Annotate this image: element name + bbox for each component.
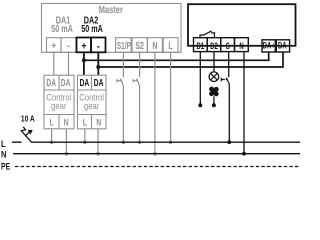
junction S1/P on L line bbox=[122, 140, 126, 144]
terminal S1/P bbox=[116, 38, 132, 53]
junction gear1 L bbox=[50, 140, 54, 144]
wire DA2- down to gear2 (bold) bbox=[97, 52, 99, 75]
svg-text:S: S bbox=[226, 41, 230, 52]
DALI bus DA+ line bbox=[84, 52, 269, 60]
circuit breaker F1 bbox=[21, 127, 32, 143]
svg-text:DA+: DA+ bbox=[263, 40, 276, 51]
terminal D2 bbox=[207, 38, 221, 52]
wire DA1- down to gear1 bbox=[68, 52, 70, 75]
svg-text:+: + bbox=[81, 40, 86, 52]
wire DA2+ down to gear2 (bold) bbox=[83, 52, 85, 75]
push button S2 bbox=[133, 79, 140, 87]
junction S on L line bbox=[227, 140, 231, 144]
terminal DA1 plus bbox=[47, 38, 62, 53]
svg-text:50 mA: 50 mA bbox=[51, 23, 73, 34]
terminal L (master) bbox=[163, 38, 178, 53]
wire fan down bbox=[213, 96, 215, 104]
svg-text:L: L bbox=[50, 116, 54, 127]
wire gear2 L to L line bbox=[84, 129, 86, 142]
wire DA1+ down to gear1 bbox=[53, 52, 55, 75]
terminal DA- bbox=[276, 40, 289, 52]
junction master N on N line bbox=[153, 152, 157, 156]
wire gear2 N to N line bbox=[97, 129, 99, 154]
junction S2 on L line bbox=[138, 140, 142, 144]
svg-text:L: L bbox=[168, 40, 173, 52]
terminal S2 bbox=[132, 38, 147, 53]
svg-text:PE: PE bbox=[1, 162, 11, 172]
wire gear1 L to L line bbox=[51, 129, 53, 142]
svg-text:+: + bbox=[51, 40, 56, 52]
svg-text:N: N bbox=[152, 40, 157, 52]
junction gear2 L bbox=[83, 140, 87, 144]
junction gear2 N bbox=[96, 152, 100, 156]
svg-text:DA-: DA- bbox=[278, 40, 289, 51]
terminal DA1 minus bbox=[61, 38, 76, 53]
N line bbox=[13, 153, 300, 155]
svg-text:Master: Master bbox=[99, 4, 123, 15]
svg-text:-: - bbox=[67, 40, 70, 52]
wire master L down bbox=[170, 52, 172, 142]
wire D1 down bbox=[199, 52, 201, 104]
relay contact K1 bbox=[200, 31, 215, 38]
svg-text:S2: S2 bbox=[135, 40, 144, 52]
L line bbox=[12, 141, 300, 143]
svg-text:D1: D1 bbox=[196, 41, 204, 52]
control gear 1 box bbox=[44, 75, 74, 129]
terminal DA2 minus (bold) bbox=[91, 38, 106, 53]
svg-text:N: N bbox=[64, 116, 69, 127]
svg-text:L: L bbox=[83, 116, 87, 127]
svg-text:L: L bbox=[1, 138, 6, 149]
fan M1 bbox=[209, 87, 219, 97]
wire gear1 N to N line bbox=[65, 129, 67, 154]
svg-text:DA: DA bbox=[46, 77, 56, 89]
master device box U1 bbox=[42, 4, 182, 53]
svg-text:D2: D2 bbox=[210, 41, 218, 52]
wire N (actuator) down bbox=[243, 52, 245, 154]
terminal DA2 plus (bold) bbox=[77, 38, 92, 53]
terminal DA+ bbox=[262, 40, 275, 52]
svg-text:S1/P: S1/P bbox=[117, 39, 131, 51]
wire S2 down bbox=[139, 52, 141, 142]
svg-text:DA: DA bbox=[80, 77, 90, 89]
junction DA- bus bbox=[96, 65, 100, 69]
push button S1 bbox=[117, 79, 124, 87]
svg-text:10 A: 10 A bbox=[21, 114, 35, 124]
wire S (actuator) down bbox=[228, 52, 231, 143]
svg-text:N: N bbox=[239, 41, 244, 52]
svg-text:50 mA: 50 mA bbox=[81, 23, 103, 34]
terminal S (actuator) bbox=[221, 38, 235, 52]
svg-text:DA: DA bbox=[94, 77, 104, 89]
svg-text:gear: gear bbox=[84, 100, 99, 111]
end dot D1 bbox=[198, 103, 202, 107]
junction actuator N on N line bbox=[242, 152, 246, 156]
svg-text:gear: gear bbox=[51, 100, 66, 111]
terminal D1 bbox=[194, 38, 208, 52]
terminal N (master) bbox=[147, 38, 162, 53]
svg-text:DA: DA bbox=[61, 77, 71, 89]
end dot D2 load bbox=[212, 103, 216, 107]
terminal N (actuator) bbox=[235, 38, 249, 52]
actuator device box U2 bbox=[188, 4, 296, 46]
svg-text:-: - bbox=[97, 40, 100, 52]
PE line bbox=[15, 166, 300, 168]
push button S actuator bbox=[221, 78, 229, 85]
wire D2 to lamp bbox=[213, 52, 215, 72]
svg-text:N: N bbox=[96, 116, 101, 127]
wire S1/P down bbox=[122, 52, 124, 142]
svg-text:N: N bbox=[1, 149, 6, 160]
junction DA+ bus bbox=[82, 58, 86, 62]
junction master L on L line bbox=[169, 140, 173, 144]
lamp E1 bbox=[209, 72, 219, 82]
junction gear1 N bbox=[65, 152, 69, 156]
control gear 2 box bbox=[78, 75, 107, 129]
wire master N down bbox=[154, 52, 156, 153]
DALI bus DA- line bbox=[98, 52, 283, 67]
